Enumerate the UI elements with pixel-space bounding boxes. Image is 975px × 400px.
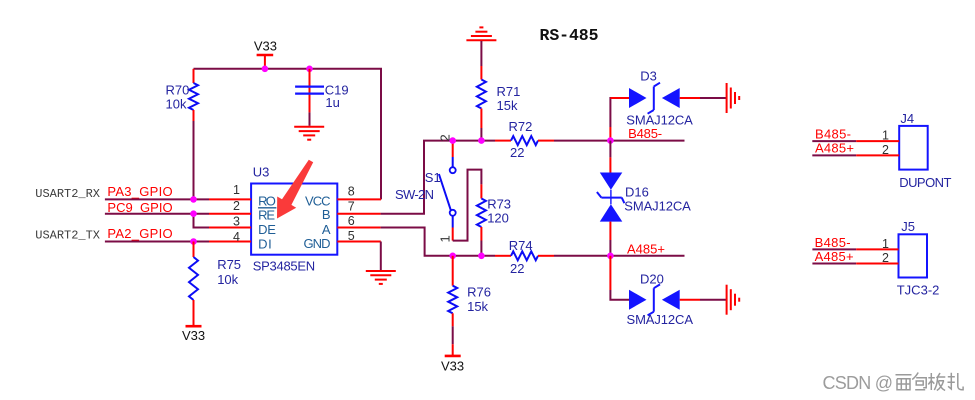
svg-text:7: 7 <box>348 199 355 213</box>
power port V33 (below R75) <box>182 326 205 343</box>
connector J4 DUPONT <box>899 111 951 190</box>
wire: PC9_GPIO to U3 pin2 <box>105 213 209 215</box>
wire: PA2_GPIO to U3 pin4 <box>105 241 209 243</box>
svg-text:2: 2 <box>882 251 889 265</box>
node: junction switch pin2 on B rail <box>449 137 456 144</box>
ground (below C19) <box>294 127 324 140</box>
node: junction R73 on A rail <box>478 253 485 260</box>
svg-text:A485+: A485+ <box>815 249 854 264</box>
resistor R76 <box>448 256 491 326</box>
wire: A485+ to J5 pin2 <box>812 263 856 265</box>
pin J4.2 <box>856 154 899 156</box>
svg-text:RS-485: RS-485 <box>540 26 599 45</box>
ground (inverted, above R71) <box>466 27 496 40</box>
svg-text:1: 1 <box>882 237 889 251</box>
node: junction pin2/jog <box>190 210 197 217</box>
wire: B rail to D3 <box>610 98 629 127</box>
wire: B485- to J4 pin1 <box>812 140 856 142</box>
svg-text:PA2_GPIO: PA2_GPIO <box>107 226 172 241</box>
pin 4 stub <box>209 241 251 243</box>
svg-text:10k: 10k <box>166 97 187 112</box>
svg-text:DI: DI <box>258 236 272 251</box>
wire: R74 to A485+ end <box>554 255 685 257</box>
svg-text:TJC3-2: TJC3-2 <box>897 283 940 298</box>
svg-text:V33: V33 <box>182 328 205 343</box>
svg-text:U3: U3 <box>253 165 270 180</box>
diode D16 SMAJ12CA <box>597 141 691 256</box>
svg-text:1: 1 <box>233 183 240 197</box>
svg-text:B485-: B485- <box>815 127 851 142</box>
node: junction pin1/R70 <box>190 196 197 203</box>
svg-text:R72: R72 <box>509 119 533 134</box>
watermark CJK glyph 面 (drawn) <box>896 373 964 391</box>
pin 2 stub <box>209 213 251 215</box>
pin 6 stub <box>337 227 380 229</box>
svg-text:DUPONT: DUPONT <box>899 175 951 190</box>
pin 8 stub <box>337 198 381 200</box>
wire: ground to R71 <box>480 41 482 66</box>
svg-text:B485-: B485- <box>815 235 851 250</box>
svg-text:2: 2 <box>233 199 240 213</box>
wire: switch pin1 to R73 top <box>453 170 482 241</box>
connector J5 TJC3-2 <box>897 219 940 297</box>
svg-text:SP3485EN: SP3485EN <box>253 259 316 274</box>
svg-text:GND: GND <box>304 236 331 251</box>
svg-text:6: 6 <box>348 214 355 228</box>
svg-text:SMAJ12CA: SMAJ12CA <box>627 312 694 327</box>
svg-text:R76: R76 <box>467 285 491 300</box>
node: junction R76 on A rail <box>449 253 456 260</box>
svg-text:SW-2N: SW-2N <box>395 187 434 202</box>
pin 1 stub <box>209 198 251 200</box>
wire: A rail to D20 <box>609 256 611 290</box>
wire: pin7 B to rail <box>381 141 495 214</box>
switch S1 SW-2N <box>395 134 456 242</box>
wire: R73 to A rail <box>480 241 482 256</box>
svg-text:B: B <box>322 207 331 222</box>
svg-text:J4: J4 <box>900 111 914 126</box>
svg-text:A: A <box>322 222 331 237</box>
pin 5 stub <box>337 241 381 243</box>
ground (below U3 pin5) <box>366 271 396 284</box>
svg-text:SMAJ12CA: SMAJ12CA <box>624 198 691 213</box>
node: junction R71 on B rail <box>478 137 485 144</box>
op-amp U3 chip body SP3485EN <box>251 165 337 274</box>
svg-text:D20: D20 <box>640 271 664 286</box>
wire: R70 to pin1 row <box>193 121 195 199</box>
wire: D20 to ground <box>700 299 726 301</box>
node: junction C19/top rail <box>306 66 313 73</box>
svg-text:5: 5 <box>348 229 355 243</box>
svg-text:S1: S1 <box>425 170 441 185</box>
svg-text:10k: 10k <box>217 272 238 287</box>
resistor R73 <box>477 184 511 240</box>
svg-text:1: 1 <box>438 235 453 242</box>
svg-text:J5: J5 <box>901 219 915 234</box>
resistor R75 <box>189 242 241 326</box>
pin name RE with overbar (pin2) <box>258 207 276 209</box>
wire: B485- to J5 pin1 <box>812 248 856 250</box>
svg-text:A485+: A485+ <box>627 241 665 256</box>
svg-text:22: 22 <box>510 261 524 276</box>
svg-text:B485-: B485- <box>628 126 662 141</box>
capacitor C19 <box>295 69 349 113</box>
ground (right of D3, rotated) <box>727 83 740 113</box>
wire: V33 top rail <box>194 69 382 200</box>
ground (right of D20, rotated) <box>727 285 740 315</box>
pin 3 stub <box>209 227 251 229</box>
resistor R72 <box>495 119 554 160</box>
svg-text:USART2_TX: USART2_TX <box>35 228 100 242</box>
wire: PA3_GPIO to U3 pin1 <box>105 198 209 200</box>
node: junction V33/top rail <box>262 66 269 73</box>
wire: jog pin2 to pin3 <box>194 214 210 228</box>
pin J4.1 <box>856 140 899 142</box>
svg-text:RO: RO <box>258 194 276 209</box>
pin J5.1 <box>856 248 898 250</box>
diode D3 SMAJ12CA <box>610 68 700 127</box>
pin 7 stub <box>337 213 380 215</box>
svg-text:PA3_GPIO: PA3_GPIO <box>107 184 172 199</box>
svg-text:1u: 1u <box>325 95 339 110</box>
svg-text:1: 1 <box>882 129 889 143</box>
svg-text:120: 120 <box>487 211 509 226</box>
svg-text:DE: DE <box>258 222 276 237</box>
svg-text:USART2_RX: USART2_RX <box>35 187 100 201</box>
resistor R74 <box>495 238 554 276</box>
svg-text:R71: R71 <box>497 84 521 99</box>
node: junction D3/D16 on B rail <box>607 137 614 144</box>
wire: R72 to B485- end <box>554 140 685 142</box>
power port V33 (below R76) <box>441 344 464 373</box>
svg-text:V33: V33 <box>254 39 277 54</box>
svg-text:15k: 15k <box>467 299 488 314</box>
svg-text:D3: D3 <box>640 68 657 83</box>
svg-text:R74: R74 <box>509 238 533 253</box>
svg-text:R75: R75 <box>217 257 241 272</box>
svg-text:2: 2 <box>882 143 889 157</box>
watermark CJK glyph 包 (drawn) <box>912 373 926 390</box>
wire: C19 to ground <box>309 112 311 125</box>
svg-text:RE: RE <box>258 207 275 222</box>
svg-text:D16: D16 <box>625 184 649 199</box>
resistor R70 <box>166 69 199 121</box>
svg-text:R73: R73 <box>487 197 511 212</box>
wire: A485+ to J4 pin2 <box>812 154 856 156</box>
svg-text:V33: V33 <box>441 359 464 374</box>
resistor R71 <box>477 66 520 128</box>
power port V33 (top) <box>254 39 277 69</box>
wire: GND pin5 down <box>380 242 382 271</box>
annotation: red arrow over U3 <box>277 160 313 219</box>
svg-text:A485+: A485+ <box>815 141 854 156</box>
wire: pin6 A to bottom rail <box>381 228 495 256</box>
watermark CJK glyph 板 (drawn) <box>928 373 945 391</box>
svg-text:3: 3 <box>233 214 240 228</box>
watermark CJK glyph 扎 (drawn) <box>948 373 964 390</box>
wire: R76 to V33 <box>452 326 454 344</box>
svg-text:R70: R70 <box>166 83 190 98</box>
node: junction D16/D20 on A rail <box>607 253 614 260</box>
diode D20 SMAJ12CA <box>627 271 701 327</box>
wire: R71 to B rail <box>480 128 482 141</box>
svg-text:15k: 15k <box>497 98 518 113</box>
watermark CSDN <box>823 373 894 393</box>
node: junction pin4/R75 <box>190 238 197 245</box>
pin J5.2 <box>856 263 898 265</box>
svg-text:CSDN @: CSDN @ <box>823 373 894 393</box>
svg-text:4: 4 <box>233 230 240 244</box>
svg-text:22: 22 <box>510 145 524 160</box>
svg-text:8: 8 <box>348 185 355 199</box>
wire: D3 to ground <box>700 97 726 99</box>
